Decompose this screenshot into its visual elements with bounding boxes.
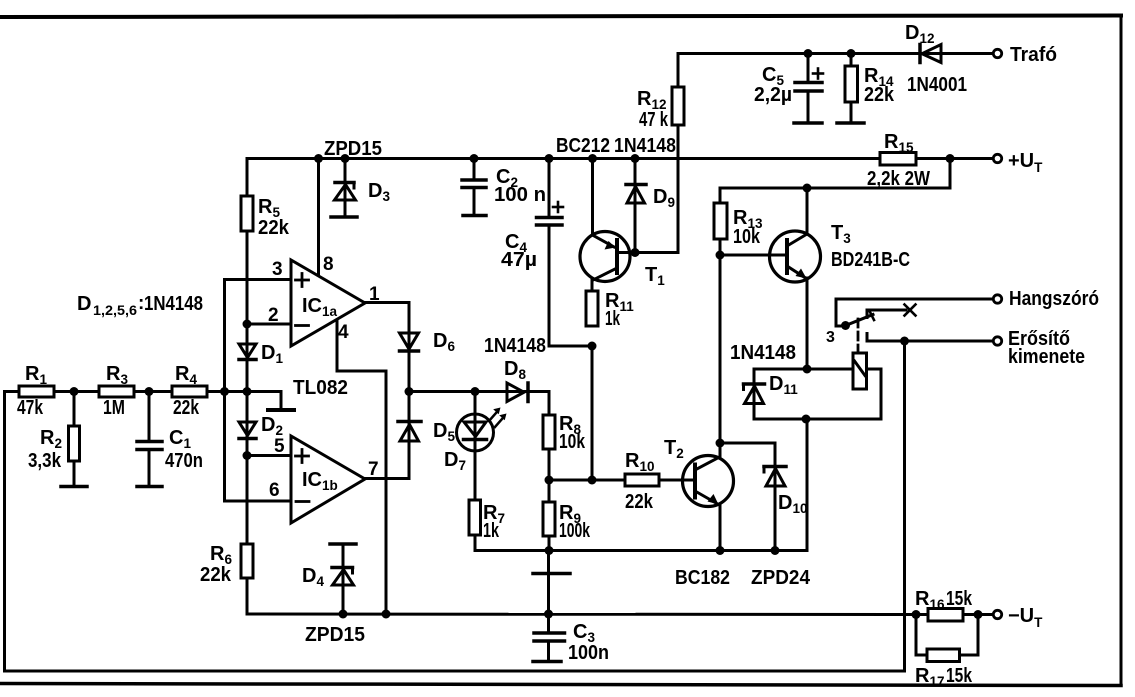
diode D8 <box>507 383 549 402</box>
wire T2 collector to T3 base column <box>719 255 722 443</box>
relay contact arm pivot <box>841 321 850 330</box>
svg-text:2,2k 2W: 2,2k 2W <box>867 168 930 190</box>
wire R3 to node B <box>134 390 172 393</box>
svg-text:22k: 22k <box>864 84 895 106</box>
svg-text:BD241B-C: BD241B-C <box>831 249 910 271</box>
resistor R12 <box>672 87 684 125</box>
resistor R4 <box>172 386 207 397</box>
node C2 rail junction <box>470 154 479 163</box>
svg-text:3: 3 <box>826 329 835 346</box>
node A junction <box>70 387 79 396</box>
svg-text:100k: 100k <box>559 520 591 542</box>
wire node to LED and D8 <box>409 390 507 393</box>
node D5 D6 junction <box>405 387 414 396</box>
svg-text:Trafó: Trafó <box>1010 44 1057 66</box>
diode D12 <box>920 45 993 63</box>
wire R6 to negative rail <box>246 578 249 614</box>
ground C1 <box>137 485 162 489</box>
transistor T1 <box>580 159 630 282</box>
node pin4 rail junction <box>382 610 391 619</box>
wire pin 7 output <box>365 477 409 480</box>
resistor R1 <box>19 386 54 397</box>
ground D3 <box>331 215 357 219</box>
svg-text:1k: 1k <box>605 308 621 330</box>
node C4 R11 junction <box>588 342 597 351</box>
wire pin 4 L to bottom column <box>337 318 386 614</box>
node relay bottom junction <box>802 415 811 424</box>
svg-text:TL082: TL082 <box>293 377 348 399</box>
relay upper contact <box>867 310 906 318</box>
svg-text:ZPD15: ZPD15 <box>305 624 365 646</box>
wire Trafo top rail <box>678 52 920 55</box>
diode D9 <box>626 159 646 253</box>
node R15 output junction <box>946 154 955 163</box>
capacitor C1 <box>137 392 162 487</box>
border frame bottom <box>0 684 1121 686</box>
ground C5 <box>794 121 822 125</box>
node T3 collector junction <box>803 184 812 193</box>
transistor T1 emitter arrow PNP <box>605 241 616 250</box>
svg-text:2: 2 <box>268 305 279 326</box>
transistor T3 emitter arrow <box>796 269 807 279</box>
svg-text:470n: 470n <box>165 450 203 472</box>
zener D10 <box>764 443 786 551</box>
svg-text:ZPD24: ZPD24 <box>751 567 811 589</box>
node Erosito column junction <box>900 337 909 346</box>
relay coil <box>853 353 867 389</box>
node R16 right junction <box>974 610 983 619</box>
wire R1 to node A <box>54 390 99 393</box>
capacitor C3 <box>534 614 565 661</box>
node D9 bottom junction <box>631 248 640 257</box>
svg-text:6: 6 <box>269 480 280 501</box>
wire bottom net <box>548 419 807 551</box>
node D4 rail junction <box>339 610 348 619</box>
zener D4 <box>330 544 356 614</box>
svg-text:1N4148: 1N4148 <box>730 342 796 364</box>
terminal Erosito <box>993 337 1001 345</box>
opamp IC1a plus <box>296 274 309 287</box>
wire Erosito feed and lower contact <box>867 334 993 342</box>
relay contact arm <box>846 315 874 326</box>
resistor R17 parallel loop <box>916 615 978 662</box>
diode D5 <box>398 392 421 479</box>
wire pin 8 to rail <box>317 159 320 277</box>
terminal +UT <box>993 154 1001 162</box>
resistor R14 <box>845 54 858 123</box>
capacitor C5 plus sign <box>813 69 823 79</box>
LED D7 arrows <box>489 413 502 427</box>
wire T1 base line <box>617 251 678 254</box>
ground R14 <box>837 121 864 125</box>
wire R4 to clamp node <box>207 390 281 393</box>
wire input feedback loop (left edge and bottom, Erősítő to R1) <box>5 341 905 671</box>
opamp IC1b minus <box>296 500 309 503</box>
transistor T3 <box>770 231 821 282</box>
svg-text:1k: 1k <box>483 520 500 542</box>
node R13 T3 base junction <box>716 251 725 260</box>
transistor T2 emitter arrow <box>708 494 719 505</box>
node clamp junction <box>243 387 252 396</box>
wire input column to pins 3 and 6 <box>223 280 226 502</box>
LED D7 <box>457 392 494 501</box>
wire T3 collector up <box>806 188 809 233</box>
wire pin 2 <box>247 323 291 326</box>
svg-text:1N4001: 1N4001 <box>907 74 967 96</box>
resistor R13 <box>714 203 727 239</box>
wire relay loop <box>754 369 853 383</box>
node R11 bottom junction <box>588 476 597 485</box>
svg-text:3,3k: 3,3k <box>28 450 62 472</box>
zener D11 <box>744 369 765 419</box>
wire R10 to T2 base <box>659 479 695 482</box>
wire relay loop right <box>754 369 881 419</box>
node T2 emitter junction <box>716 546 725 555</box>
resistor R9 <box>543 480 555 551</box>
svg-text:kimenete: kimenete <box>1008 346 1085 368</box>
opamp IC1a minus <box>296 324 309 327</box>
svg-text:15k: 15k <box>946 588 973 610</box>
relay coil dashed actuator <box>857 319 860 352</box>
svg-text:10k: 10k <box>559 431 586 453</box>
wire T2 collector up <box>719 443 722 456</box>
node D9 rail junction <box>631 154 640 163</box>
node C3 rail junction <box>544 610 553 619</box>
wire T1 collector to R11 <box>591 280 594 291</box>
resistor R2 <box>69 392 80 487</box>
wire R7 to bottom net <box>475 535 548 551</box>
ground C2 <box>463 214 486 218</box>
node R16 left junction <box>912 610 921 619</box>
svg-text:22k: 22k <box>625 491 654 513</box>
svg-text:47k: 47k <box>17 397 44 419</box>
wire D10 branch <box>720 443 775 466</box>
svg-text:10k: 10k <box>733 226 761 248</box>
svg-text:1,2,5,6: 1,2,5,6 <box>93 303 138 318</box>
node C4 rail junction <box>545 154 554 163</box>
svg-text:BC212: BC212 <box>556 135 610 157</box>
node pin8 rail junction <box>314 154 323 163</box>
svg-text:100 n: 100 n <box>494 184 546 206</box>
capacitor C2 <box>462 159 486 216</box>
node LED junction <box>471 387 480 396</box>
wire D8 corner to R8 <box>548 392 551 416</box>
wire R8 to junction <box>548 449 551 480</box>
resistor R3 <box>99 386 134 397</box>
svg-text:2,2µ: 2,2µ <box>754 84 792 106</box>
wire T2 emitter down <box>719 504 722 551</box>
wire R11 bottom column <box>591 346 594 480</box>
relay contact x mark <box>905 305 916 316</box>
resistor R5 <box>241 196 253 231</box>
wire ground stub to negative rail <box>547 551 550 615</box>
terminal Hangszoro <box>993 295 1001 303</box>
wire pin 1 output <box>365 303 409 334</box>
svg-text:1: 1 <box>369 284 380 305</box>
terminal -UT <box>993 610 1001 618</box>
relay contact arm tick <box>870 311 875 320</box>
ground clamp node <box>268 408 294 412</box>
capacitor C4 plus sign <box>553 202 563 212</box>
diode D6 <box>400 303 419 392</box>
wire R12 column <box>677 54 680 253</box>
node pin2 junction <box>243 320 252 329</box>
svg-text:1N4148: 1N4148 <box>614 135 676 157</box>
svg-text:Hangszóró: Hangszóró <box>1009 288 1099 310</box>
wire R5 to pin2 node <box>246 231 249 344</box>
capacitor C5 <box>795 54 822 123</box>
wire Hangszoro feed <box>836 299 993 326</box>
wire T3 base <box>720 254 787 257</box>
op-amp IC1b <box>291 436 365 523</box>
resistor R8 <box>543 415 555 449</box>
diode D1 <box>239 324 256 392</box>
border frame right <box>1120 16 1123 686</box>
resistor R6 <box>241 544 253 578</box>
node pin5 junction <box>243 451 252 460</box>
wire R13 to base node <box>719 239 722 255</box>
transistor T2 <box>683 456 734 507</box>
resistor R7 <box>469 500 481 535</box>
op-amp IC1a <box>291 260 365 346</box>
zener D3 <box>335 159 356 217</box>
svg-text:BC182: BC182 <box>675 567 730 589</box>
ground C3 <box>533 660 561 664</box>
svg-text:8: 8 <box>323 254 334 275</box>
svg-text:47µ: 47µ <box>501 249 537 271</box>
node T2 collector junction <box>716 439 725 448</box>
svg-text:5: 5 <box>274 436 285 457</box>
svg-text:3: 3 <box>272 259 283 280</box>
svg-text:4: 4 <box>338 322 349 343</box>
resistor R10 <box>625 474 659 486</box>
svg-text:22k: 22k <box>200 564 232 586</box>
capacitor C4 <box>537 218 593 347</box>
terminal Trafo <box>993 49 1001 57</box>
wire R13 T3 feed <box>720 159 950 204</box>
node T1 rail junction <box>588 154 597 163</box>
ground tick bottom net <box>533 572 570 576</box>
node C5 junction <box>804 49 813 58</box>
svg-text:15k: 15k <box>946 665 973 687</box>
wire main positive rail <box>247 157 993 160</box>
svg-text:47 k: 47 k <box>639 109 669 131</box>
resistor R16 <box>916 609 993 622</box>
wire pin 6 <box>225 500 292 503</box>
svg-text:1M: 1M <box>103 397 125 419</box>
svg-text:1N4148: 1N4148 <box>144 293 203 315</box>
wire ground stub of clamp node <box>280 392 283 410</box>
node R9 bottom junction <box>545 546 554 555</box>
resistor R11 <box>586 291 598 326</box>
wire junction to R10 <box>549 479 625 482</box>
svg-text:D: D <box>77 293 91 315</box>
wire rail corner to R5 <box>246 159 249 197</box>
opamp IC1b plus <box>296 450 309 463</box>
wire pin 5 <box>247 454 291 457</box>
wire T3 emitter down <box>806 278 809 369</box>
svg-text:1N4148: 1N4148 <box>484 335 546 357</box>
svg-text:7: 7 <box>368 459 379 480</box>
node relay top junction <box>803 365 812 374</box>
svg-text:ZPD15: ZPD15 <box>324 138 382 160</box>
node D10 bottom junction <box>771 546 780 555</box>
node input column junction <box>220 387 229 396</box>
node B junction <box>145 387 154 396</box>
node R8 R9 junction <box>545 476 554 485</box>
wire pin5 node down to R6 <box>246 456 249 545</box>
svg-text:22k: 22k <box>173 397 200 419</box>
wire negative rail <box>247 613 916 617</box>
node D3 rail junction <box>341 154 350 163</box>
wire C4 column <box>548 159 551 217</box>
resistor R15 <box>880 153 916 166</box>
svg-text:100n: 100n <box>568 642 609 664</box>
border frame top <box>0 16 1121 18</box>
svg-text:22k: 22k <box>258 217 290 239</box>
wire pin 3 <box>225 278 292 281</box>
node R14 junction <box>847 49 856 58</box>
diode D2 <box>239 392 256 456</box>
ground R2 <box>61 485 87 489</box>
